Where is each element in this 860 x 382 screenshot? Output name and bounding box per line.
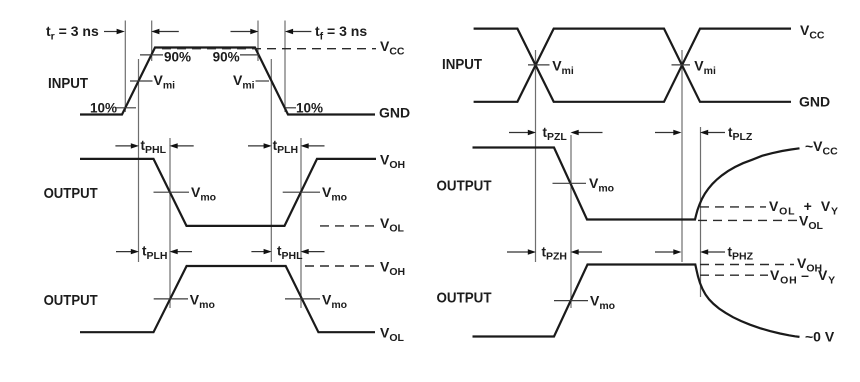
tPZH dimension arrow right bbox=[571, 249, 603, 254]
node Vmo tick out2 fall bbox=[285, 298, 320, 300]
svg-text:OUTPUT: OUTPUT bbox=[437, 290, 492, 307]
wire vertical line input Vmi rise bbox=[138, 59, 140, 262]
tPLZ dimension arrow right bbox=[700, 130, 725, 135]
svg-text:~0 V: ~0 V bbox=[805, 329, 835, 345]
node VOH-VY dashed level bbox=[700, 274, 768, 276]
node VOH dashed level out2 bbox=[305, 265, 376, 267]
node Vmi tick cross 1 bbox=[528, 64, 550, 66]
node Vmi tick fall bbox=[256, 80, 270, 82]
node 10% tick fall bbox=[286, 107, 297, 109]
node Vmo tick out1 fall bbox=[154, 191, 190, 193]
tPLH bottom dimension arrow left bbox=[116, 249, 139, 254]
tPHL dimension arrow right bbox=[170, 143, 194, 148]
svg-text:90%: 90% bbox=[164, 50, 191, 65]
svg-text:90%: 90% bbox=[213, 50, 240, 65]
tPLH dimension arrow right bbox=[301, 143, 325, 148]
svg-text:OUTPUT: OUTPUT bbox=[44, 292, 98, 309]
tf dimension arrow left bbox=[231, 29, 259, 34]
node Vmi tick rise bbox=[130, 80, 153, 82]
svg-text:OUTPUT: OUTPUT bbox=[437, 178, 492, 195]
wire vertical line input rise 90% bbox=[151, 21, 153, 62]
tPZL dimension arrow right bbox=[571, 130, 603, 135]
output2 waveform left bbox=[80, 266, 375, 332]
tPHL bottom dimension arrow left bbox=[251, 249, 271, 254]
tPZH dimension arrow left bbox=[507, 249, 536, 254]
tPHZ dimension arrow left bbox=[655, 249, 682, 254]
input waveform left bbox=[80, 48, 375, 115]
svg-text:OUTPUT: OUTPUT bbox=[44, 185, 98, 202]
tPLH bottom dimension arrow right bbox=[170, 249, 193, 254]
svg-text:GND: GND bbox=[379, 105, 410, 121]
node Vmo tick out2 rise bbox=[154, 298, 188, 300]
input waveform right trace A bbox=[474, 29, 791, 102]
output2 waveform right with fall curve bbox=[473, 265, 800, 337]
wire vertical line input Vmi cross 2 bbox=[681, 50, 683, 262]
wire vertical line input Vmi fall bbox=[270, 59, 272, 262]
wire vertical line input fall 10% bbox=[284, 21, 286, 113]
node 10% tick rise bbox=[116, 107, 136, 109]
svg-text:INPUT: INPUT bbox=[48, 75, 88, 92]
node Vmo tick right out1 bbox=[553, 182, 587, 184]
tPLZ dimension arrow left bbox=[655, 130, 682, 135]
tPHZ dimension arrow right bbox=[700, 249, 725, 254]
tr dimension arrow right bbox=[151, 29, 179, 34]
tf dimension arrow right bbox=[285, 29, 312, 34]
node 90% tick fall bbox=[240, 54, 259, 56]
node 90% tick rise bbox=[140, 54, 163, 56]
output1 waveform left bbox=[80, 159, 376, 226]
svg-text:GND: GND bbox=[799, 94, 830, 110]
node VOL dashed level right bbox=[698, 219, 797, 221]
tPHL bottom dimension arrow right bbox=[301, 249, 325, 254]
tPZL dimension arrow left bbox=[509, 130, 536, 135]
node VCC dashed level line bbox=[162, 48, 376, 50]
wire vertical line output disable crossing bbox=[700, 127, 702, 297]
input waveform right trace B bbox=[474, 29, 791, 102]
svg-text:INPUT: INPUT bbox=[442, 56, 482, 73]
tPHL dimension arrow left bbox=[115, 143, 139, 148]
wire vertical line output Vmo right bbox=[300, 138, 302, 308]
wire vertical line output Vmo right-panel bbox=[570, 135, 572, 308]
svg-text:10%: 10% bbox=[296, 101, 323, 116]
node VOH dashed level right bbox=[700, 264, 794, 266]
tPLH dimension arrow left bbox=[248, 143, 272, 148]
node Vmi tick cross 2 bbox=[672, 64, 691, 66]
wire vertical line output Vmo left bbox=[169, 138, 171, 308]
tr dimension arrow left bbox=[104, 29, 125, 34]
wire vertical line input fall 90% bbox=[257, 21, 259, 62]
output1 waveform right with rise curve bbox=[473, 148, 800, 220]
node VOL+VY dashed level bbox=[700, 206, 766, 208]
node Vmo tick right out2 bbox=[554, 300, 588, 302]
svg-text:10%: 10% bbox=[90, 101, 117, 116]
node Vmo tick out1 rise bbox=[283, 191, 320, 193]
wire vertical line input rise 10% bbox=[124, 21, 126, 113]
wire vertical line input Vmi cross 1 bbox=[535, 50, 537, 262]
node VOL dashed level out1 bbox=[320, 225, 376, 227]
